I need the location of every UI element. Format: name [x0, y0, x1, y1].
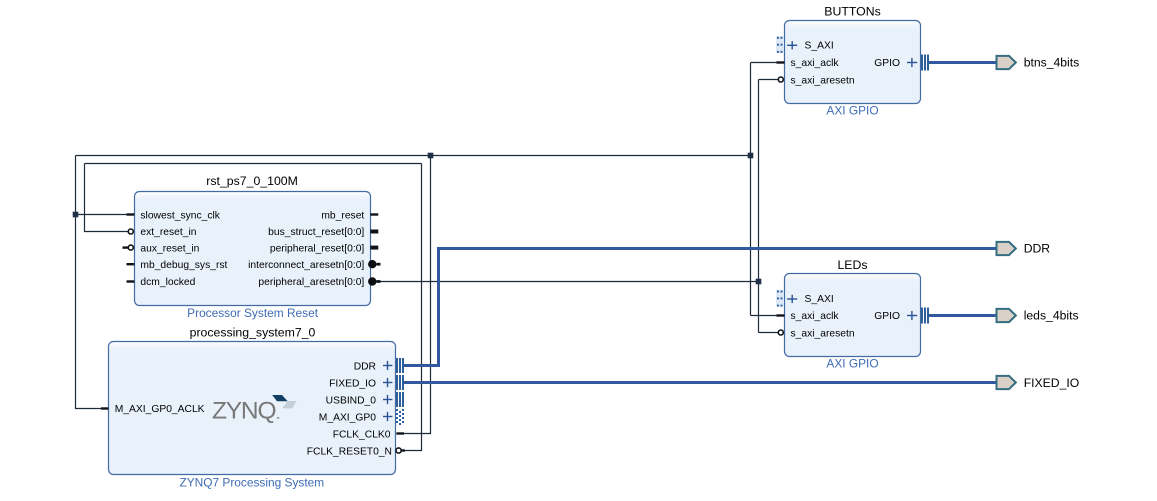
bus GPIO of LEDs to leds_4bits port — [928, 314, 996, 317]
svg-text:AXI GPIO: AXI GPIO — [826, 356, 878, 370]
wire FCLK_RESET0_N net: top horizontal — [85, 163, 422, 165]
wire aclk to BUTTONs — [751, 62, 779, 64]
svg-text:interconnect_aresetn[0:0]: interconnect_aresetn[0:0] — [248, 260, 364, 271]
wire FCLK_RESET0_N net: drop to ext_reset_in — [85, 164, 129, 232]
svg-text:leds_4bits: leds_4bits — [1024, 309, 1079, 323]
pin FCLK_CLK0 stub — [396, 432, 404, 434]
pin s_axi_aresetn bubble — [778, 330, 783, 335]
junction at clock top right — [748, 153, 754, 159]
pin S_AXI plus — [787, 295, 797, 303]
interface pin S_AXI unconnected dotted indicator — [776, 36, 784, 53]
logo dark swoosh — [272, 395, 288, 401]
pin interconnect_aresetn bubble — [368, 260, 376, 268]
pin FIXED_IO interface bars — [397, 375, 403, 390]
pin aux_reset_in stub — [123, 246, 129, 248]
logo gray swoosh — [282, 401, 297, 408]
svg-text:DDR: DDR — [354, 362, 376, 373]
pin mb_reset stub — [370, 213, 378, 215]
pin s_axi_aclk stub — [777, 61, 785, 63]
svg-text:M_AXI_GP0_ACLK: M_AXI_GP0_ACLK — [115, 404, 205, 415]
pin GPIO plus — [907, 58, 917, 67]
svg-text:peripheral_aresetn[0:0]: peripheral_aresetn[0:0] — [258, 277, 364, 288]
svg-text:ZYNQ: ZYNQ — [212, 398, 277, 425]
pin M_AXI_GP0 plus — [383, 412, 392, 421]
block rst_ps7_0_100M body — [135, 192, 371, 306]
svg-text:s_axi_aresetn: s_axi_aresetn — [791, 75, 855, 86]
pin ext_reset_in bubble — [128, 229, 133, 234]
wire FCLK_CLK0 net: branch to slowest_sync_clk — [76, 214, 129, 216]
wire peripheral_aresetn net: riser — [758, 80, 760, 333]
logo trademark dot — [277, 417, 279, 419]
block BUTTONs body — [785, 21, 921, 104]
svg-text:aux_reset_in: aux_reset_in — [140, 244, 199, 255]
pin DDR interface bars — [397, 358, 403, 373]
pin peripheral_reset stub — [370, 246, 378, 250]
pin M_AXI_GP0 unconnected checkered bars — [396, 409, 404, 425]
pin GPIO interface bars — [922, 55, 928, 71]
pin FCLK_RESET0_N bubble — [396, 448, 401, 453]
pin dcm_locked stub — [127, 280, 135, 282]
junction at slowest_sync_clk branch — [73, 212, 79, 218]
pin mb_debug_sys_rst stub — [127, 263, 135, 265]
block LEDs body — [785, 274, 921, 357]
svg-text:mb_debug_sys_rst: mb_debug_sys_rst — [140, 260, 227, 271]
wire FCLK_CLK0 net: right riser to GPIO aclk pins — [750, 63, 752, 316]
wire peripheral_aresetn net: horizontal — [377, 281, 759, 283]
svg-text:FCLK_RESET0_N: FCLK_RESET0_N — [307, 446, 392, 457]
pin GPIO plus — [907, 311, 917, 320]
pin M_AXI_GP0_ACLK stub — [101, 407, 109, 409]
block processing_system7_0 body — [109, 342, 396, 475]
wire FCLK_CLK0 net: pin to riser — [403, 156, 431, 434]
pin s_axi_aclk stub — [777, 314, 785, 316]
svg-text:s_axi_aclk: s_axi_aclk — [791, 311, 840, 322]
svg-text:slowest_sync_clk: slowest_sync_clk — [140, 210, 220, 221]
svg-text:ext_reset_in: ext_reset_in — [140, 227, 196, 238]
interface pin S_AXI unconnected dotted indicator — [776, 290, 784, 307]
wire FCLK_RESET0_N net: pin to riser — [404, 164, 422, 451]
svg-text:GPIO: GPIO — [874, 58, 900, 69]
pin GPIO interface bars — [922, 308, 928, 324]
port leds_4bits — [997, 309, 1016, 322]
wire aresetn to BUTTONs — [759, 79, 779, 81]
wire FCLK_CLK0 net: left drop to M_AXI_GP0_ACLK — [76, 156, 104, 409]
svg-text:M_AXI_GP0: M_AXI_GP0 — [319, 413, 377, 424]
svg-text:peripheral_reset[0:0]: peripheral_reset[0:0] — [270, 244, 365, 255]
svg-text:bus_struct_reset[0:0]: bus_struct_reset[0:0] — [268, 227, 364, 238]
svg-text:dcm_locked: dcm_locked — [140, 277, 195, 288]
svg-text:AXI GPIO: AXI GPIO — [826, 104, 878, 118]
pin peripheral_aresetn bubble — [368, 277, 376, 285]
svg-text:GPIO: GPIO — [874, 311, 900, 322]
pin s_axi_aresetn bubble — [778, 77, 783, 82]
port FIXED_IO — [997, 376, 1016, 389]
wire aresetn to LEDs — [759, 332, 779, 334]
svg-text:DDR: DDR — [1024, 242, 1051, 256]
svg-text:FIXED_IO: FIXED_IO — [329, 379, 376, 390]
svg-text:btns_4bits: btns_4bits — [1024, 56, 1080, 70]
pin USBIND_0 plus — [383, 395, 392, 404]
svg-text:processing_system7_0: processing_system7_0 — [190, 325, 316, 339]
svg-text:Processor System Reset: Processor System Reset — [187, 306, 319, 320]
svg-text:FCLK_CLK0: FCLK_CLK0 — [333, 429, 391, 440]
svg-text:S_AXI: S_AXI — [805, 41, 834, 52]
port DDR — [997, 242, 1016, 255]
wire FCLK_CLK0 net: top horizontal — [76, 155, 751, 157]
pin DDR plus — [383, 361, 392, 370]
pin slowest_sync_clk stub — [127, 213, 135, 215]
pin USBIND_0 interface bars — [397, 392, 403, 407]
bus FIXED_IO: ZYNQ to FIXED_IO port — [404, 381, 996, 384]
junction at aresetn riser — [756, 279, 762, 285]
svg-text:S_AXI: S_AXI — [805, 294, 834, 305]
pin FIXED_IO plus — [383, 378, 392, 387]
port btns_4bits — [997, 56, 1016, 69]
pin aux_reset_in bubble — [128, 245, 133, 250]
bus GPIO of BUTTONs to btns_4bits port — [928, 61, 996, 64]
svg-text:LEDs: LEDs — [837, 258, 867, 272]
svg-text:USBIND_0: USBIND_0 — [326, 396, 377, 407]
svg-text:BUTTONs: BUTTONs — [824, 5, 880, 19]
junction at clock riser top — [428, 153, 434, 159]
svg-text:FIXED_IO: FIXED_IO — [1024, 376, 1080, 390]
svg-text:s_axi_aresetn: s_axi_aresetn — [791, 328, 855, 339]
pin S_AXI plus — [787, 41, 797, 49]
pin bus_struct_reset stub — [370, 230, 378, 234]
svg-text:mb_reset: mb_reset — [321, 210, 364, 221]
svg-text:ZYNQ7 Processing System: ZYNQ7 Processing System — [179, 475, 324, 489]
svg-text:rst_ps7_0_100M: rst_ps7_0_100M — [206, 174, 298, 188]
wire aclk to LEDs — [751, 315, 779, 317]
bus DDR: ZYNQ DDR pin to DDR port — [404, 249, 996, 366]
svg-text:s_axi_aclk: s_axi_aclk — [791, 58, 840, 69]
